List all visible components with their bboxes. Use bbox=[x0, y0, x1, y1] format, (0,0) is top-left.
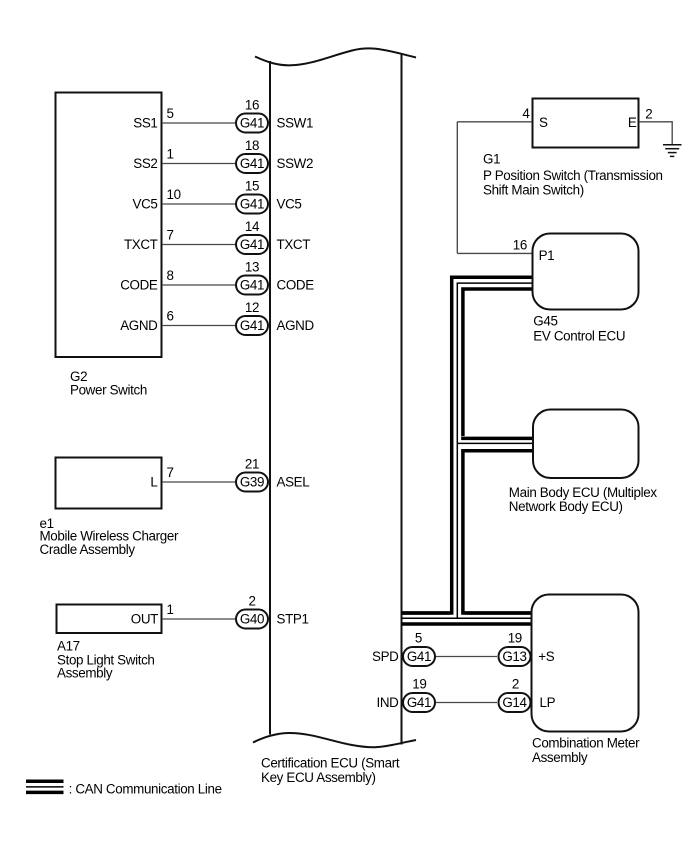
CAN trunk white mask bbox=[450, 275, 466, 616]
svg-text:10: 10 bbox=[167, 187, 181, 202]
component box e1 Mobile Wireless Charger Cradle Assembly bbox=[56, 458, 162, 509]
wire S to vertical bbox=[457, 121, 532, 123]
CAN bus elbow and trunk outer line bbox=[402, 277, 533, 613]
svg-text:13: 13 bbox=[245, 260, 259, 275]
connector G40 pin 2 bbox=[236, 610, 268, 629]
svg-text:G41: G41 bbox=[240, 237, 264, 252]
svg-text:SPD: SPD bbox=[372, 649, 399, 664]
svg-text:19: 19 bbox=[508, 630, 522, 645]
svg-text:4: 4 bbox=[522, 106, 530, 121]
svg-text:Network Body ECU): Network Body ECU) bbox=[509, 499, 623, 514]
svg-text:VC5: VC5 bbox=[277, 197, 302, 212]
svg-text:12: 12 bbox=[245, 300, 259, 315]
svg-text:P1: P1 bbox=[539, 248, 555, 263]
svg-text:G1: G1 bbox=[483, 151, 500, 166]
svg-text:19: 19 bbox=[412, 677, 426, 692]
component box G45 EV Control ECU bbox=[533, 234, 639, 310]
svg-text:8: 8 bbox=[167, 268, 174, 283]
svg-text:E: E bbox=[628, 115, 637, 130]
svg-text:P Position Switch (Transmissio: P Position Switch (Transmission bbox=[483, 168, 663, 183]
svg-text:EV Control ECU: EV Control ECU bbox=[533, 328, 625, 343]
svg-text:A17: A17 bbox=[57, 639, 80, 654]
svg-text:AGND: AGND bbox=[120, 318, 158, 333]
svg-text:Certification ECU (Smart: Certification ECU (Smart bbox=[261, 755, 400, 770]
svg-text:G41: G41 bbox=[407, 649, 431, 664]
connector G14 pin 2 bbox=[499, 693, 531, 712]
svg-text:L: L bbox=[150, 475, 157, 490]
connector G41 pin 12 bbox=[236, 316, 268, 335]
svg-text:Power Switch: Power Switch bbox=[70, 382, 147, 397]
svg-text:TXCT: TXCT bbox=[277, 237, 311, 252]
svg-text:16: 16 bbox=[245, 98, 259, 113]
wire IND bbox=[436, 702, 497, 704]
svg-text:Key ECU Assembly): Key ECU Assembly) bbox=[261, 770, 376, 785]
CAN bus elbow and trunk inner line bbox=[463, 289, 532, 613]
svg-text:G41: G41 bbox=[240, 116, 264, 131]
svg-text:G41: G41 bbox=[407, 695, 431, 710]
certification ECU left edge bbox=[269, 61, 271, 735]
svg-text:2: 2 bbox=[645, 106, 652, 121]
svg-text:G41: G41 bbox=[240, 318, 264, 333]
svg-text:ASEL: ASEL bbox=[277, 475, 310, 490]
CAN branch white mask bbox=[460, 436, 533, 452]
svg-text:5: 5 bbox=[167, 106, 174, 121]
svg-text:Assembly: Assembly bbox=[57, 665, 113, 680]
svg-text:SSW1: SSW1 bbox=[277, 116, 314, 131]
wire SS1 bbox=[162, 122, 236, 124]
svg-text:G41: G41 bbox=[240, 197, 264, 212]
svg-text:7: 7 bbox=[167, 228, 174, 243]
svg-text:18: 18 bbox=[245, 138, 259, 153]
component box A17 Stop Light Switch Assembly bbox=[57, 605, 162, 634]
certification ECU bottom wavy edge bbox=[253, 733, 416, 747]
wire STP1 bbox=[162, 618, 236, 620]
svg-text:CODE: CODE bbox=[120, 278, 158, 293]
svg-text:1: 1 bbox=[167, 602, 174, 617]
certification ECU right edge bbox=[401, 54, 403, 745]
svg-text:5: 5 bbox=[415, 630, 422, 645]
svg-text:SS1: SS1 bbox=[133, 116, 157, 131]
wire TXCT bbox=[162, 244, 236, 246]
svg-text:G13: G13 bbox=[502, 649, 526, 664]
svg-text:+S: +S bbox=[538, 649, 554, 664]
svg-text:Combination Meter: Combination Meter bbox=[532, 736, 640, 751]
svg-text:STP1: STP1 bbox=[277, 612, 309, 627]
svg-text:Main Body ECU (Multiplex: Main Body ECU (Multiplex bbox=[509, 485, 658, 500]
wire SPD bbox=[436, 656, 497, 658]
CAN bus elbow and trunk thin line bbox=[457, 283, 532, 617]
connector G13 pin 19 bbox=[499, 647, 531, 666]
connector G41 pin 13 bbox=[236, 276, 268, 295]
svg-text:7: 7 bbox=[167, 465, 174, 480]
wire E to ground bbox=[639, 122, 672, 145]
svg-text:Cradle Assembly: Cradle Assembly bbox=[40, 542, 136, 557]
component box Main Body ECU bbox=[533, 410, 639, 479]
svg-text:1: 1 bbox=[167, 147, 174, 162]
component box G2 Power Switch bbox=[56, 93, 162, 358]
connector G41 pin 16 bbox=[236, 114, 268, 133]
svg-text:SSW2: SSW2 bbox=[277, 156, 314, 171]
svg-text:16: 16 bbox=[513, 237, 527, 252]
svg-text:Assembly: Assembly bbox=[532, 750, 588, 765]
svg-text:G41: G41 bbox=[240, 156, 264, 171]
connector G39 pin 21 bbox=[236, 473, 268, 492]
connector G41 pin 5 bbox=[403, 647, 435, 666]
wire vertical S to P1 bbox=[456, 122, 458, 254]
svg-text:TXCT: TXCT bbox=[124, 237, 158, 252]
svg-text:G14: G14 bbox=[502, 695, 527, 710]
svg-text:AGND: AGND bbox=[277, 318, 315, 333]
svg-text:CODE: CODE bbox=[277, 278, 315, 293]
svg-text:SS2: SS2 bbox=[133, 156, 157, 171]
connector G41 pin 15 bbox=[236, 195, 268, 214]
wire CODE bbox=[162, 284, 236, 286]
CAN bus horizontal bundle to combination meter bbox=[402, 613, 532, 624]
svg-text:21: 21 bbox=[245, 457, 259, 472]
ground bbox=[663, 145, 682, 157]
component box Combination Meter Assembly bbox=[532, 595, 639, 732]
svg-text:S: S bbox=[539, 115, 548, 130]
connector G41 pin 14 bbox=[236, 235, 268, 254]
CAN branch to main body ECU bottom line bbox=[461, 449, 533, 453]
svg-text:G39: G39 bbox=[240, 475, 264, 490]
svg-text:VC5: VC5 bbox=[133, 197, 158, 212]
wire VC5 bbox=[162, 203, 236, 205]
component box G1 P Position Switch bbox=[533, 99, 639, 148]
certification ECU top wavy edge bbox=[255, 48, 416, 65]
svg-text:G45: G45 bbox=[533, 313, 557, 328]
svg-text:Shift Main Switch): Shift Main Switch) bbox=[483, 183, 584, 198]
wire to P1 bbox=[457, 252, 532, 254]
CAN branch to main body ECU thin line bbox=[457, 442, 533, 444]
wire SS2 bbox=[162, 163, 236, 165]
svg-text:14: 14 bbox=[245, 219, 260, 234]
legend CAN communication line symbol bbox=[26, 781, 64, 792]
svg-text:LP: LP bbox=[540, 695, 556, 710]
svg-text:15: 15 bbox=[245, 179, 259, 194]
svg-text:6: 6 bbox=[167, 309, 174, 324]
svg-text:G40: G40 bbox=[240, 612, 264, 627]
wire ASEL bbox=[162, 481, 236, 483]
svg-text:IND: IND bbox=[376, 695, 399, 710]
svg-text:: CAN Communication Line: : CAN Communication Line bbox=[69, 781, 222, 796]
connector G41 pin 19 bbox=[403, 693, 435, 712]
svg-text:2: 2 bbox=[248, 594, 255, 609]
svg-text:OUT: OUT bbox=[131, 612, 158, 627]
svg-text:2: 2 bbox=[512, 677, 519, 692]
wire AGND bbox=[162, 325, 236, 327]
svg-text:G41: G41 bbox=[240, 278, 264, 293]
CAN branch to main body ECU top line bbox=[461, 437, 533, 441]
connector G41 pin 18 bbox=[236, 154, 268, 173]
